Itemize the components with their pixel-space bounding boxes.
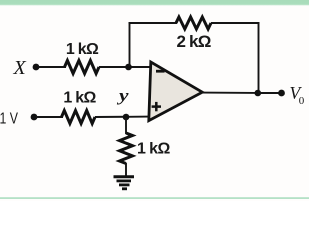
wire output to terminal: [258, 92, 281, 94]
output terminal V0: [278, 90, 285, 97]
resistor R3: [62, 111, 96, 124]
wire feedback right vertical down to output: [258, 22, 260, 93]
svg-text:1 V: 1 V: [0, 110, 19, 127]
junction node at output: [254, 90, 261, 97]
svg-text:0: 0: [299, 95, 305, 107]
resistor R1: [65, 61, 100, 74]
svg-text:1 kΩ: 1 kΩ: [66, 41, 99, 58]
wire feedback top left: [129, 22, 177, 24]
svg-text:X: X: [13, 57, 27, 79]
resistor R2: [176, 17, 211, 29]
inverting input marker minus: [156, 70, 165, 73]
source terminal 1 V: [0, 110, 37, 127]
wire op-amp output: [201, 92, 258, 94]
label V0: [290, 83, 305, 107]
wire feedback top right: [211, 22, 259, 24]
ground: [114, 177, 135, 189]
wire X terminal to R1: [38, 66, 66, 68]
wire node y down to R4: [125, 117, 127, 134]
wire 1 V terminal to R3: [36, 116, 63, 118]
svg-text:y: y: [116, 86, 129, 105]
op-amp U1: [149, 62, 203, 121]
wire R4 to ground: [125, 163, 127, 176]
non-inverting input marker plus: [152, 102, 161, 111]
wire R1 to op-amp inverting input: [99, 66, 151, 68]
wire R3 to op-amp non-inverting input: [95, 116, 150, 118]
node y: [116, 86, 129, 120]
svg-text:1 kΩ: 1 kΩ: [137, 141, 170, 158]
svg-text:1 kΩ: 1 kΩ: [63, 90, 96, 107]
wire junction up to feedback: [129, 22, 131, 67]
node X input terminal: [13, 57, 40, 79]
resistor R4: [120, 133, 133, 164]
junction node at inverting input: [125, 64, 132, 71]
svg-text:2 kΩ: 2 kΩ: [176, 32, 210, 51]
